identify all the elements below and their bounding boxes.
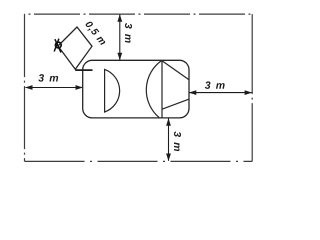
- ignition source symbol: cross stroke 2: [54, 39, 59, 52]
- fan circle arc (bulging left): [146, 61, 161, 118]
- ignition source symbol: circle: [55, 42, 61, 48]
- fan cone lower diagonal: [162, 99, 189, 109]
- clearance boundary left (dash-dot chain line): [24, 14, 26, 161]
- bottom dimension line 3 m: [168, 119, 170, 161]
- clearance boundary right (dash-dot chain line): [251, 14, 253, 161]
- svg-text:3 m: 3 m: [122, 23, 134, 44]
- ignition source symbol: cross stroke 1: [55, 39, 61, 52]
- top dimension line 3 m: [119, 15, 121, 61]
- clearance boundary top (dash-dot chain line): [25, 13, 253, 15]
- connection stub line from diamond to unit: [75, 69, 92, 71]
- compressor (D-shape inside left part): [105, 69, 120, 112]
- svg-text:3 m: 3 m: [205, 80, 226, 92]
- heat pump unit outline (rounded rectangle, top view): [83, 60, 189, 118]
- fan cone upper diagonal: [162, 61, 189, 80]
- svg-text:3 m: 3 m: [171, 131, 183, 152]
- right dimension line 3 m: [189, 92, 251, 94]
- clearance boundary bottom (dash-dot chain line): [25, 160, 253, 162]
- fan section divider line: [161, 60, 163, 117]
- left dimension line 3 m: [26, 87, 83, 89]
- svg-text:3 m: 3 m: [38, 72, 59, 84]
- ignition-source diamond (tilted square above unit): [58, 27, 92, 69]
